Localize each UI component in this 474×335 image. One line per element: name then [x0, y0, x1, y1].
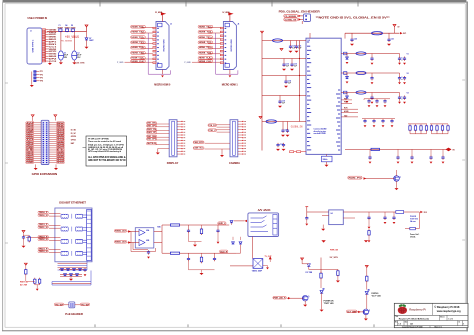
wire fb loop [415, 212, 419, 229]
capacitor C14 [285, 76, 287, 80]
power flag 5V above D7 [85, 25, 88, 27]
svg-text:HDMI_TX2-: HDMI_TX2- [132, 32, 146, 34]
resistor R50 fb divider [368, 229, 370, 236]
svg-text:HDMI_TX0-: HDMI_TX0- [132, 52, 146, 54]
diode array D11 row 2 [60, 274, 82, 276]
svg-text:PWM1_OUT: PWM1_OUT [115, 242, 127, 244]
wire buck out rail [404, 211, 420, 213]
ground Q5 [304, 301, 306, 305]
svg-text:+5V_SYS: +5V_SYS [75, 62, 85, 64]
svg-text:PWR_LED_R: PWR_LED_R [273, 298, 286, 300]
power flag 3V3 GPIO left [31, 115, 34, 117]
wire J4 5V feed at top [229, 14, 231, 22]
transformer T3 [61, 239, 87, 244]
ground diode rows [70, 276, 72, 278]
wire CAM gpio wires [205, 142, 231, 144]
capacitor C61 buck out [368, 212, 370, 216]
wire J3 5V feed at top [162, 14, 164, 22]
wire PD0 bubble to header [298, 15, 301, 17]
connector J6 pin grid [43, 122, 45, 123]
capacitor C62 buck out [384, 212, 386, 216]
svg-text:TV_OUT: TV_OUT [265, 256, 273, 258]
svg-text:J3: J3 [170, 24, 172, 26]
node U2 pin name columns [307, 41, 309, 43]
capacitor C53 tap [83, 268, 86, 272]
connector J1 pin field [42, 29, 45, 31]
wire Q3 drain up [396, 170, 398, 176]
power flag ACT 3V3 [365, 266, 368, 268]
wire page right edge line [466, 2, 468, 332]
capacitor C55 opamp supply [147, 250, 150, 254]
svg-text:V1: V1 [407, 54, 409, 56]
node net AUD_R [220, 250, 228, 253]
svg-text:Sheet: Sheet [440, 315, 445, 318]
svg-text:AUD_L: AUD_L [218, 222, 226, 225]
ground under Q3 [396, 181, 398, 188]
svg-text:P_GND: P_GND [117, 62, 124, 64]
svg-text:+5V_VBUS: +5V_VBUS [65, 35, 80, 39]
svg-text:U4: U4 [331, 212, 333, 215]
wire PWR_LED_R [287, 297, 303, 299]
wire buck sw out [343, 211, 396, 213]
svg-text:CAM_GPIO: CAM_GPIO [194, 141, 204, 144]
wire magjack shield bundle [52, 281, 91, 283]
resistor R41 series left [170, 224, 179, 226]
svg-text:TRD0_N: TRD0_N [39, 215, 49, 217]
ground under J2 [30, 85, 34, 87]
svg-text:R40: R40 [157, 226, 160, 229]
wire diode row bus [60, 275, 82, 277]
wire jack lower input [243, 233, 248, 241]
connector J3 pin pads [153, 27, 156, 29]
resistor R33 [38, 278, 40, 285]
node red down arrow B [364, 240, 368, 242]
wire ethernet diff pairs [49, 212, 61, 214]
svg-text:HDMI_TX1-: HDMI_TX1- [199, 42, 213, 44]
ground CAMERA [221, 149, 223, 155]
svg-text:TRD2_P: TRD2_P [39, 236, 49, 238]
svg-text:CAMERA: CAMERA [229, 161, 240, 165]
wire feedback bus left of chip [299, 41, 301, 122]
diode D15 esd [239, 242, 242, 244]
svg-text:TRD1_N: TRD1_N [39, 227, 49, 229]
diode D10 [346, 93, 348, 97]
wire SW3 to cap cluster [396, 93, 400, 95]
capacitor MH2 top rail part 2 [65, 29, 68, 32]
wire buck en [322, 215, 329, 217]
svg-text:DSI1_CP: DSI1_CP [147, 132, 157, 134]
transformer T2 [61, 227, 87, 232]
resistor R42 [200, 228, 202, 235]
svg-text:HDMI_TX0+: HDMI_TX0+ [199, 47, 213, 49]
node junction dots on rail [60, 31, 61, 32]
svg-text:1 of 1: 1 of 1 [448, 319, 452, 321]
svg-text:D5: D5 [71, 25, 73, 27]
svg-text:**NOTE GND IS 5V1, GLOBAL_EN I: **NOTE GND IS 5V1, GLOBAL_EN IS 5V** [316, 16, 390, 19]
connector J8 CAMERA FPC body [230, 120, 238, 157]
svg-text:TP4: TP4 [40, 80, 43, 83]
wire buck vin [307, 211, 329, 213]
capacitor bottom row cluster [368, 155, 371, 159]
svg-text:ID_SD: ID_SD [71, 130, 77, 132]
svg-text:These can be routed to the IO: These can be routed to the IO board [88, 140, 121, 143]
wire J4 shield bus [216, 33, 238, 74]
wire long 5V feed [345, 148, 449, 150]
power flag VDD_IO [280, 49, 283, 51]
svg-text:Raspberry Pi 4 Model B (Reduce: Raspberry Pi 4 Model B (Reduced) [399, 317, 429, 320]
svg-text:CSI_D1: CSI_D1 [209, 125, 217, 127]
node 3V3 port arrow [420, 211, 423, 213]
svg-text:HDMI_TX2+: HDMI_TX2+ [199, 26, 213, 28]
connector J3 pin numbers [157, 27, 159, 30]
wire buck vin riser [306, 207, 308, 216]
wire 5V input bus vertical [261, 34, 263, 151]
svg-text:RUN_PG: RUN_PG [349, 178, 363, 180]
svg-text:C21: C21 [391, 39, 394, 41]
capacitor C42 mid cluster [383, 99, 386, 103]
resistor R30 ethernet ct [28, 235, 30, 242]
ground LED D18 [321, 293, 323, 309]
node red down arrow A [321, 240, 325, 242]
svg-text:3V3: 3V3 [424, 212, 427, 214]
op-amp U2 MXL7704 PMIC body [306, 38, 341, 154]
capacitor C58 [188, 253, 190, 257]
wire VBUS vertical tie [44, 30, 46, 62]
connector J9 magjack outer body [55, 208, 92, 262]
transformer T4 [61, 251, 87, 256]
svg-text:ARE NOT 5V TOLERANT. NO 5V IO: ARE NOT 5V TOLERANT. NO 5V IO [88, 159, 126, 162]
LED D18 PWR [320, 288, 325, 293]
wire right chain [180, 252, 236, 254]
svg-text:DISPLAY: DISPLAY [167, 161, 179, 165]
capacitor C10 [290, 41, 292, 45]
capacitor MH1 top rail part 1 [59, 29, 62, 32]
svg-text:AUD_R: AUD_R [220, 250, 228, 253]
connector J9 RJ45 pin block [87, 209, 92, 260]
svg-text:u: u [401, 98, 402, 100]
capacitor C18 low cluster [276, 143, 283, 147]
svg-text:GIGABIT ETHERNET: GIGABIT ETHERNET [59, 201, 86, 205]
svg-text:GPIO1: GPIO1 [71, 140, 76, 142]
svg-text:PG2: PG2 [344, 102, 347, 104]
node 5V arrow video [269, 256, 272, 259]
svg-text:VHV890: VHV890 [70, 27, 75, 29]
capacitor C19 low cluster [282, 143, 285, 147]
svg-text:marked PGND: marked PGND [314, 133, 327, 135]
wire page bottom edge line [2, 330, 468, 331]
resistor divider group 2 [430, 123, 448, 125]
ground GPIO right [55, 164, 57, 168]
wire PWM1 input [128, 242, 140, 244]
svg-text:A/V JACK: A/V JACK [258, 209, 271, 212]
svg-text:TRD3_N: TRD3_N [39, 251, 49, 253]
capacitor C52 ethernet ct [22, 231, 25, 233]
svg-text:5V_HDMI: 5V_HDMI [155, 12, 163, 14]
resistor R43 series right [170, 252, 179, 254]
ground audio right chain [188, 261, 190, 270]
svg-text:HDMI_TX2-: HDMI_TX2- [199, 32, 213, 34]
node net AUD_L [218, 222, 226, 225]
svg-text:TRD3_P: TRD3_P [39, 248, 49, 250]
svg-text:"ACT" LED: "ACT" LED [371, 295, 381, 298]
wire note box stub [83, 147, 87, 149]
wire rail EN [262, 121, 306, 123]
diode array D10 row 1 [59, 268, 84, 270]
inductor L2 [266, 120, 277, 123]
resistor R51 fb top [410, 227, 416, 229]
capacitor C57 [217, 225, 219, 229]
svg-text:DSI1_DN1: DSI1_DN1 [147, 123, 156, 125]
svg-text:VIDEO_AMP: VIDEO_AMP [252, 269, 263, 272]
svg-text:ACT_LED: ACT_LED [347, 310, 357, 313]
wire J3 shield bus [148, 33, 170, 74]
wire mid cluster rail [364, 98, 390, 100]
svg-text:CAM_SCL: CAM_SCL [194, 147, 204, 150]
wire ct bus [24, 234, 30, 236]
wire act led to fet [366, 294, 368, 309]
wire audio right chain [154, 242, 162, 244]
resistor R44 [200, 256, 202, 263]
wire act [366, 282, 368, 289]
wire RUN_PG label wire [364, 178, 394, 180]
svg-text:Power Out 1: Power Out 1 [410, 233, 419, 236]
wire audio left chain [154, 231, 162, 233]
wire cap row rail [362, 118, 395, 120]
svg-text:HDMI_CLK+: HDMI_CLK+ [199, 58, 213, 60]
op-amp U4 buck regulator [329, 210, 344, 225]
wire J3 signal wires [141, 27, 153, 29]
svg-text:Rev: Rev [395, 321, 398, 323]
inductor L5 [356, 71, 366, 74]
crystal X1 below PMIC [322, 156, 333, 162]
inductor L4 [356, 52, 366, 55]
svg-text:GPIO map follows BCM numbering: GPIO map follows BCM numbering id [88, 151, 121, 153]
wire PoE right [75, 304, 81, 306]
connector J7 DISPLAY FPC body [169, 120, 177, 157]
svg-text:u: u [401, 59, 402, 61]
capacitor C30 [371, 54, 373, 57]
svg-text:32kHz: 32kHz [323, 159, 328, 161]
svg-text:PG1: PG1 [344, 98, 347, 100]
svg-text:TRD2_N: TRD2_N [39, 239, 49, 241]
svg-text:1.0: 1.0 [398, 324, 400, 326]
wire rset link [28, 281, 35, 283]
svg-text:CSI_C: CSI_C [209, 130, 218, 132]
connector J11 innards [251, 214, 278, 235]
svg-text:GPIO21: GPIO21 [57, 162, 64, 164]
resistor R32 [34, 278, 36, 285]
svg-text:TP3: TP3 [40, 77, 43, 79]
resistor R52 pwr [320, 272, 322, 280]
svg-text:ID_SC: ID_SC [71, 133, 77, 135]
svg-text:J1: J1 [30, 31, 32, 33]
wire CAM csi pairs [208, 124, 217, 127]
wire PG rows [341, 99, 352, 101]
capacitor C31 cluster [399, 55, 401, 57]
inductor L3 [372, 32, 383, 35]
wire divider group1 bottom [410, 133, 427, 135]
wire diode to ground [86, 40, 88, 47]
diode D8 [346, 54, 348, 58]
ground under X1 [325, 165, 329, 167]
ground under C2 [73, 60, 75, 62]
svg-text:HDMI_TX1+: HDMI_TX1+ [132, 37, 146, 39]
capacitor C1 bulk [58, 51, 63, 60]
svg-text:GLOBAL_EN: GLOBAL_EN [291, 125, 303, 129]
svg-text:J4: J4 [237, 23, 239, 26]
ground under connector pins [49, 62, 51, 63]
connector J1 USB-C [27, 28, 42, 64]
capacitor C20 top [351, 33, 353, 37]
svg-text:HDMI_CLK-: HDMI_CLK- [199, 61, 213, 63]
capacitor C17 [287, 122, 289, 129]
node title block frame [394, 303, 468, 327]
power flag ethernet AVDD [24, 263, 27, 265]
wire PoE left [64, 304, 69, 306]
capacitor C60 buck in [305, 216, 308, 220]
svg-text:PWM0_OUT: PWM0_OUT [115, 231, 127, 233]
ground tap cap [84, 274, 87, 276]
inductor L6 [356, 91, 366, 94]
capacitor C16 [282, 122, 284, 129]
wire DSI wires [156, 123, 170, 125]
svg-text:MICRO HDMI 1: MICRO HDMI 1 [222, 83, 239, 87]
svg-text:MICRO HDMI 0: MICRO HDMI 0 [154, 83, 171, 87]
svg-text:VHV890: VHV890 [65, 27, 70, 29]
svg-text:HDMI_TX0-: HDMI_TX0- [199, 52, 213, 54]
svg-text:PD_SENSE0: PD_SENSE0 [285, 16, 297, 18]
wire J3 bottom stub [162, 70, 164, 75]
resistor R8 row [290, 151, 307, 153]
svg-text:DSI1_DN0: DSI1_DN0 [147, 136, 156, 138]
wire pwr led net [302, 263, 309, 265]
ground audio left chain [189, 241, 202, 243]
diode D9 [346, 73, 348, 77]
connector J4 pin pads [220, 27, 223, 29]
wire SW2 row [341, 72, 396, 74]
wire PWM0 input [128, 231, 140, 233]
wire J4 signal wires [208, 27, 220, 29]
node raspberry pi logo [398, 304, 407, 314]
wire TRD2 long feed [26, 237, 49, 239]
wire video feed down [252, 237, 254, 259]
svg-text:© Raspberry Pi 2018: © Raspberry Pi 2018 [434, 305, 460, 309]
svg-text:DSI1_CN: DSI1_CN [147, 129, 157, 131]
capacitor C15 [279, 96, 281, 100]
resistor R20 on 5V feed [371, 148, 380, 150]
wire C1 to ground [60, 60, 62, 62]
svg-text:PoE HEADER: PoE HEADER [65, 313, 83, 316]
wire jack input top [234, 220, 245, 222]
capacitor C59 [214, 253, 216, 257]
svg-text:USB-C POWER IN: USB-C POWER IN [28, 16, 48, 20]
ground ethernet ct [23, 240, 25, 246]
svg-text:3V3 2A: 3V3 2A [410, 235, 416, 238]
diode D14 esd [230, 221, 233, 223]
capacitor C40 mid cluster [367, 99, 370, 103]
svg-text:AV_75R: AV_75R [20, 284, 28, 287]
wire PD0 header drop [301, 21, 303, 24]
ground under C1 [59, 62, 63, 64]
power flag 5V GPIO right [54, 115, 57, 117]
svg-text:Size: Size [405, 321, 408, 323]
wire J4 bottom stub [229, 70, 231, 75]
svg-text:SCL0: SCL0 [147, 143, 156, 145]
svg-text:V2: V2 [407, 73, 409, 75]
svg-text:GLOBAL_EN: GLOBAL_EN [285, 18, 297, 21]
connector J4 micro HDMI body [223, 22, 236, 70]
capacitor MH3 top rail part 3 [71, 29, 74, 32]
capacitor C13 [291, 59, 293, 63]
svg-text:MF-MSMF: MF-MSMF [58, 27, 63, 29]
svg-text:MICRO HDMI: MICRO HDMI [164, 39, 166, 51]
svg-text:PWR_ON: PWR_ON [330, 249, 339, 251]
ground DISPLAY [157, 149, 159, 153]
svg-text:D17 ZEN: D17 ZEN [306, 272, 313, 274]
LED D19 ACT [365, 289, 370, 294]
resistor divider group 1 [408, 123, 427, 125]
node AV jack port arrow [244, 220, 247, 222]
svg-text:HDMI_CLK+: HDMI_CLK+ [132, 58, 146, 60]
wire SW1 to cap cluster [396, 54, 400, 56]
wire rail VIN3 [262, 75, 306, 77]
svg-text:GPIO EXPANSION: GPIO EXPANSION [32, 172, 58, 176]
power flag PWR led 5V [301, 258, 304, 260]
wire page top shadow bar [3, 0, 467, 3]
connector J10 PoE header [69, 302, 75, 308]
node design note box [86, 136, 127, 166]
svg-text:C20: C20 [354, 39, 357, 41]
svg-text:F1: F1 [59, 25, 61, 27]
wire diodes row [232, 237, 234, 240]
svg-text:PD0, GLOBAL_EN HEADER: PD0, GLOBAL_EN HEADER [279, 10, 320, 14]
wire SW2 to cap cluster [396, 73, 400, 75]
wire drop to C1 [60, 32, 62, 51]
svg-text:5V_SYS: 5V_SYS [330, 257, 339, 259]
wire GPIO left pin wires [34, 122, 42, 124]
svg-text:TRD1_P: TRD1_P [39, 224, 49, 226]
connector J5 2-pin header [304, 14, 311, 22]
diode D17 zener pwr [307, 264, 310, 267]
node +5V diamond port [446, 148, 452, 152]
capacitor C35 cluster [399, 94, 401, 96]
svg-text:2A max: 2A max [410, 220, 416, 223]
ground video [263, 265, 268, 267]
resistor R53 pwr [337, 269, 339, 276]
ground buck [322, 225, 324, 229]
capacitor C2 bulk [72, 51, 77, 60]
svg-text:"PWR" LED: "PWR" LED [324, 303, 335, 305]
wire R52 to led [320, 279, 322, 288]
wire 5V input rail [47, 31, 87, 33]
capacitor C32 [371, 73, 373, 76]
diode D7 VBUS clamp [86, 32, 88, 38]
node PD0 net label bubble [284, 14, 298, 17]
svg-text:Raspberry Pi: Raspberry Pi [409, 308, 426, 312]
svg-text:MICRO HDMI: MICRO HDMI [231, 39, 233, 51]
svg-text:HDMI_TX0+: HDMI_TX0+ [132, 47, 146, 49]
inductor L6 buck [396, 211, 404, 214]
svg-text:DSI1_DP1: DSI1_DP1 [147, 125, 156, 127]
svg-text:DSI1_DP0: DSI1_DP0 [147, 139, 156, 141]
wire Q5 to led [308, 293, 321, 297]
capacitor C12 [283, 59, 285, 63]
svg-text:GPIO0: GPIO0 [71, 136, 76, 138]
svg-text:D4: D4 [65, 24, 67, 27]
capacitor C34 [371, 93, 373, 96]
svg-text:V3: V3 [407, 93, 409, 95]
svg-text:1: 1 [463, 324, 464, 326]
